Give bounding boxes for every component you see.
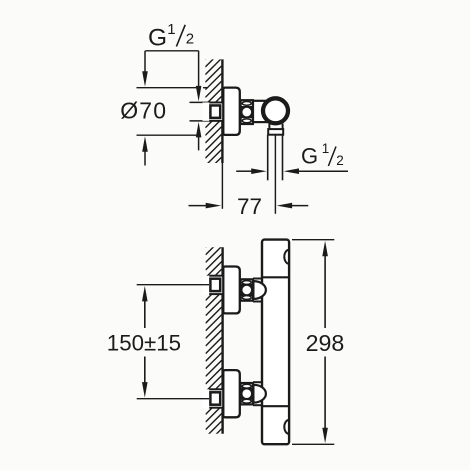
diameter 70 extension lines bbox=[137, 87, 201, 89]
upper side detail arc bbox=[284, 250, 289, 264]
dia 70 dimension upper arrow bbox=[144, 51, 146, 72]
union nut at 393.7 bbox=[241, 383, 253, 404]
dia 70 dimension lower arrow bbox=[142, 136, 148, 152]
lower escutcheon flange bbox=[223, 370, 240, 417]
union cylinder stubs at 290.0 bbox=[253, 278, 263, 280]
upper supply square fitting bbox=[203, 276, 224, 294]
top view: wall line thin extension for 77 dim bbox=[221, 163, 223, 209]
lower side detail arc bbox=[284, 420, 289, 434]
body upper seam bbox=[262, 276, 289, 278]
svg-text:298: 298 bbox=[306, 330, 345, 356]
svg-text:Ø70: Ø70 bbox=[120, 98, 167, 124]
thermostat handle (top view circle) bbox=[263, 98, 288, 123]
front view: wall surface line bbox=[221, 247, 223, 433]
upper escutcheon flange bbox=[223, 267, 240, 314]
svg-text:G: G bbox=[301, 144, 318, 169]
union nut (side view) bbox=[241, 100, 253, 124]
valve body link bbox=[253, 101, 268, 122]
svg-text:G: G bbox=[148, 25, 167, 52]
lower supply square fitting bbox=[203, 389, 224, 407]
union cylinder stubs at 393.7 bbox=[253, 381, 263, 383]
150 dimension extension lines bbox=[137, 284, 209, 286]
body lower seam bbox=[262, 405, 289, 407]
150 dimension arrows and stem bbox=[142, 286, 148, 302]
G 1/2 inlet dimension lower arrow bbox=[196, 122, 202, 137]
298 dimension arrows and stem bbox=[322, 241, 328, 257]
concealed supply square fitting bbox=[203, 102, 224, 120]
union dome at 290.0 bbox=[253, 281, 266, 299]
svg-text:2: 2 bbox=[186, 31, 194, 48]
77 dimension bbox=[189, 205, 207, 207]
G 1/2 inlet fitting extension lines bbox=[190, 101, 210, 103]
G 1/2 leader line bbox=[145, 50, 198, 52]
G 1/2 hose thread dimension arrows bbox=[236, 170, 251, 172]
shower hose outlet pipe bbox=[267, 135, 269, 181]
svg-text:1: 1 bbox=[322, 141, 330, 156]
298 dimension extension lines bbox=[292, 239, 334, 241]
escutcheon flange (side view) bbox=[223, 88, 240, 135]
svg-text:1: 1 bbox=[167, 21, 175, 38]
svg-text:150±15: 150±15 bbox=[107, 331, 181, 356]
pipe centerline bbox=[274, 135, 276, 214]
svg-text:77: 77 bbox=[237, 194, 262, 219]
hose collar bbox=[268, 129, 283, 135]
top view: wall surface line bbox=[221, 59, 223, 163]
hose neck below handle bbox=[268, 124, 270, 130]
union nut at 290.0 bbox=[241, 279, 253, 300]
G 1/2 inlet dimension upper arrow bbox=[198, 51, 200, 87]
union dome at 393.7 bbox=[253, 385, 266, 403]
thermostat body bar bbox=[262, 240, 289, 445]
svg-text:2: 2 bbox=[336, 153, 344, 168]
